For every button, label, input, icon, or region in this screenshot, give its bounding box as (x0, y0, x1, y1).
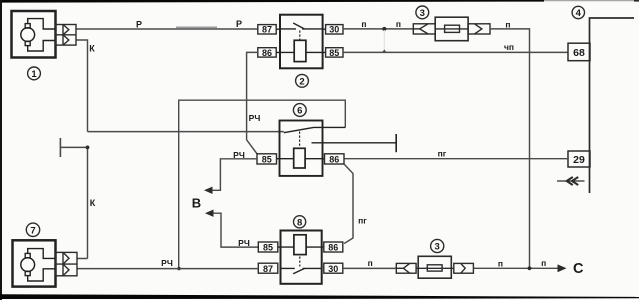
label 3 bottom (431, 239, 444, 252)
svg-text:85: 85 (329, 48, 339, 58)
svg-text:пг: пг (358, 216, 367, 226)
wire RC: motor 7 to relay8 pin87 (77, 268, 258, 270)
wire K: motor 1 down to relay 6 switch input (76, 40, 284, 132)
coil of relay 8 (294, 235, 306, 255)
wire relay8 pin85 to arrow B (212, 213, 258, 247)
wire relay6 pin85 to arrow B (211, 159, 257, 191)
svg-text:чп: чп (504, 42, 514, 52)
relay 8 (278, 231, 324, 284)
svg-text:4: 4 (576, 8, 582, 19)
svg-text:68: 68 (573, 47, 585, 59)
pin 87 (258, 25, 276, 34)
svg-text:86: 86 (328, 243, 338, 253)
pin box 29 (568, 151, 590, 167)
pin 85 relay8 (258, 242, 278, 252)
junction dot (382, 27, 386, 31)
label 7 (26, 223, 39, 236)
wire pg: relay6 pin86 to box 29 (344, 158, 568, 160)
svg-text:29: 29 (573, 154, 585, 166)
pin 87 relay8 (258, 263, 278, 273)
arrowhead B2 (205, 210, 214, 217)
connector block 4 bus (590, 18, 635, 193)
wire fuse to corner and down to bottom junction (490, 29, 530, 268)
svg-text:пг: пг (438, 149, 447, 159)
label 1 (28, 67, 41, 80)
svg-text:п: п (396, 19, 401, 29)
label 3 top (416, 6, 429, 19)
svg-text:30: 30 (328, 264, 338, 274)
arrowhead B1 (204, 187, 213, 194)
svg-text:В: В (192, 196, 201, 211)
motor unit 1 (12, 11, 56, 58)
wire pin30 to fuse 3 top (343, 28, 413, 30)
coil of relay 2 (294, 40, 306, 61)
svg-text:6: 6 (297, 106, 302, 117)
arrowhead C (558, 264, 567, 272)
changeover switch (284, 127, 346, 132)
connector X7 of motor 7 (56, 252, 77, 275)
pin stubs (276, 29, 325, 52)
svg-text:87: 87 (262, 25, 272, 35)
border left (0, 0, 2, 300)
fuse 3 top (413, 17, 490, 41)
wire relay8 pin30 to fuse 3 bottom (343, 267, 396, 269)
fuse 3 bottom (396, 256, 473, 278)
border top (0, 0, 544, 3)
label 4 (572, 6, 584, 18)
svg-text:п: п (505, 20, 510, 30)
relay 6 (277, 121, 397, 176)
pin 86 relay8 (324, 242, 343, 252)
pin 85 (326, 48, 343, 57)
svg-text:87: 87 (263, 264, 273, 274)
label 8 (294, 216, 306, 228)
svg-text:п: п (361, 19, 366, 29)
svg-text:Р: Р (136, 20, 142, 30)
wire P: motor 1 to relay 2 pin 87 (76, 28, 258, 30)
motor unit 7 (13, 240, 56, 286)
pin 86 (258, 48, 276, 57)
svg-text:п: п (368, 258, 373, 268)
riser wire pg: relay6 pin86 to relay8 pin86 (344, 164, 353, 244)
switch contact 87-30 (280, 28, 323, 30)
junction dot (86, 146, 90, 150)
border bottom (0, 294, 639, 299)
svg-text:С: С (573, 261, 584, 277)
svg-text:1: 1 (31, 69, 37, 80)
terminator bar (59, 138, 61, 157)
svg-text:30: 30 (329, 25, 339, 35)
wire relay2 pin86 down to relay6 pin85 (247, 52, 258, 153)
svg-text:3: 3 (420, 8, 425, 19)
svg-text:8: 8 (297, 217, 302, 228)
pin 85 relay6 (257, 154, 277, 164)
relay 2 (276, 15, 325, 69)
svg-text:п: п (498, 258, 503, 268)
pin 86 relay6 (325, 154, 345, 164)
svg-text:РЧ: РЧ (161, 258, 173, 268)
label 2 (296, 74, 309, 87)
svg-text:К: К (90, 198, 96, 208)
svg-text:п: п (541, 258, 546, 268)
svg-text:РЧ: РЧ (249, 113, 261, 123)
switch contact 87-30 (281, 267, 322, 269)
label 6 (293, 104, 306, 117)
pin box 68 (568, 43, 590, 61)
svg-text:РЧ: РЧ (238, 238, 250, 248)
svg-text:2: 2 (299, 76, 304, 87)
svg-text:85: 85 (262, 155, 272, 165)
wire K: terminator to motor 7 connector (61, 147, 88, 258)
svg-text:К: К (89, 44, 95, 54)
connector X1 of motor 1 (56, 25, 77, 46)
pin 30 relay8 (324, 263, 343, 273)
wire chp: relay2 pin85 to box 68 (343, 51, 568, 53)
pin 30 (326, 25, 343, 34)
svg-text:86: 86 (262, 48, 272, 58)
scan smudge on wire P (176, 26, 217, 28)
junction dot (528, 266, 532, 270)
loop wire: relay6 NO contact up and left down to RC wire (179, 100, 346, 268)
svg-text:3: 3 (435, 242, 440, 253)
coil of relay 6 (294, 148, 305, 168)
svg-text:86: 86 (329, 155, 339, 165)
svg-text:Р: Р (236, 19, 242, 29)
faint tap to chp wire (383, 30, 385, 49)
svg-text:85: 85 (263, 243, 273, 253)
arrow in to 29 (557, 177, 585, 185)
wire fuse to arrow C (473, 267, 558, 269)
junction dot (177, 267, 180, 270)
svg-text:7: 7 (30, 226, 35, 237)
